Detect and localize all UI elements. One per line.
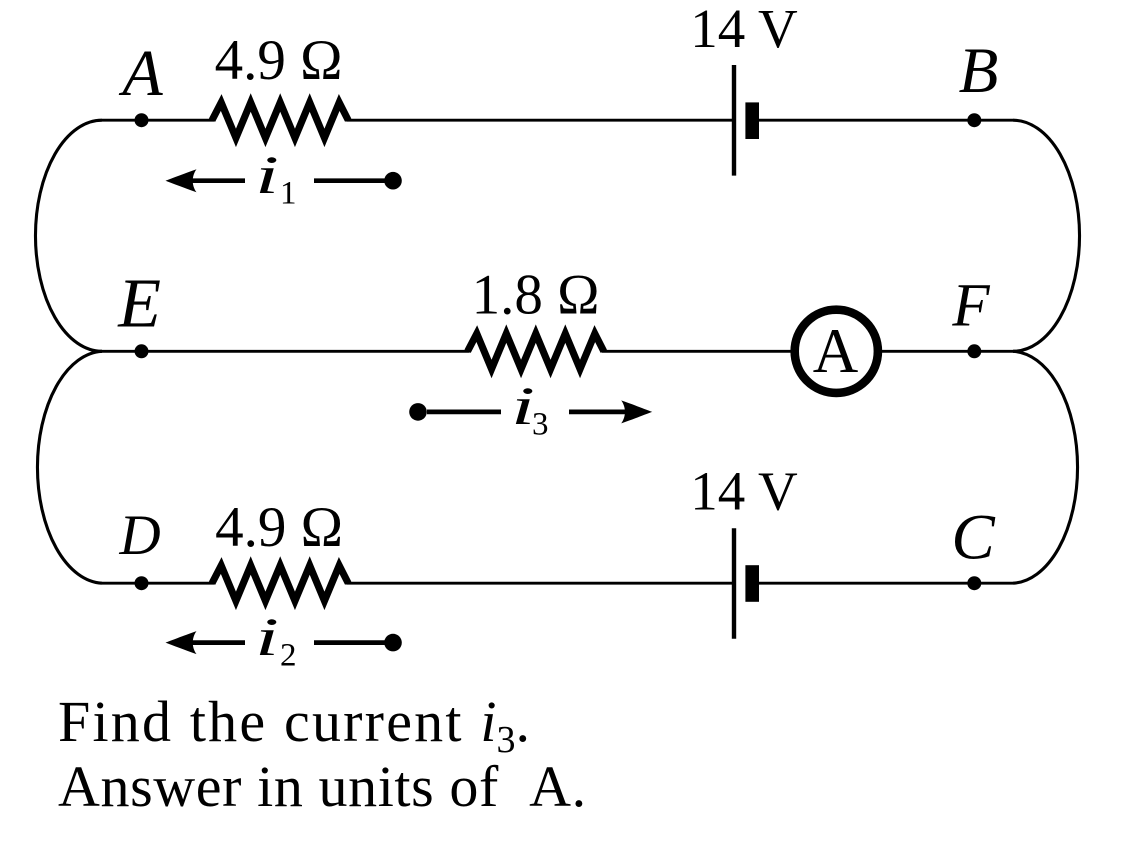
svg-text:4.9 Ω: 4.9 Ω (215, 29, 343, 92)
svg-text:Answer in units of A.: Answer in units of A. (58, 754, 587, 819)
svg-text:2: 2 (280, 638, 297, 674)
svg-text:E: E (117, 266, 161, 343)
svg-text:i: i (255, 607, 279, 667)
svg-text:A: A (813, 316, 859, 386)
svg-text:3: 3 (532, 407, 549, 443)
svg-text:F: F (951, 272, 990, 339)
svg-text:B: B (959, 35, 999, 107)
svg-text:14 V: 14 V (690, 0, 798, 59)
svg-text:1: 1 (280, 176, 297, 212)
svg-text:A: A (118, 37, 163, 110)
svg-text:14 V: 14 V (690, 461, 798, 522)
svg-text:C: C (951, 501, 995, 573)
svg-text:4.9 Ω: 4.9 Ω (215, 496, 343, 559)
svg-text:Find the current i3.: Find the current i3. (58, 689, 530, 761)
svg-text:i: i (255, 145, 279, 205)
svg-text:D: D (119, 504, 161, 567)
svg-text:1.8 Ω: 1.8 Ω (472, 264, 600, 327)
